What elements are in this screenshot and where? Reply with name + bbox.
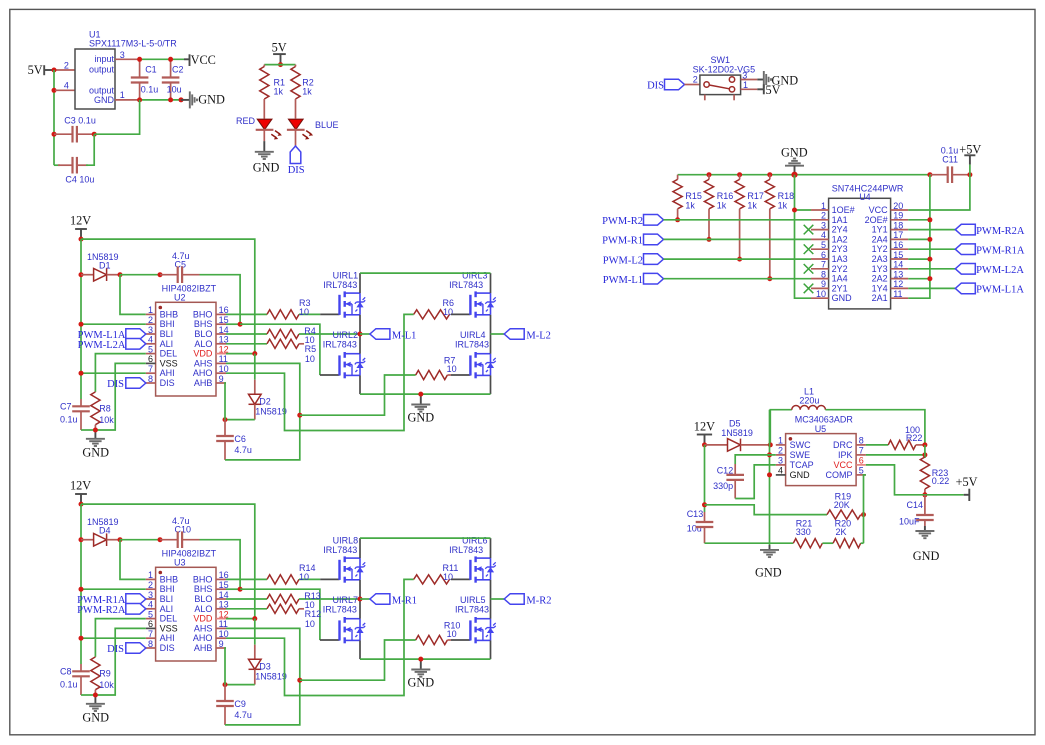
svg-text:IRL7843: IRL7843 (449, 280, 483, 290)
U2 pin 9 (AHB) (216, 382, 226, 384)
resistor R1 (263, 65, 265, 67)
svg-text:GND: GND (253, 160, 280, 174)
svg-text:5: 5 (821, 240, 826, 250)
svg-text:8: 8 (148, 639, 153, 649)
svg-text:18: 18 (893, 220, 903, 230)
svg-text:DIS: DIS (288, 165, 305, 176)
wire VSS down-left (95, 628, 145, 695)
svg-text:1: 1 (120, 90, 125, 100)
U3 pin 10 (AHO) (216, 637, 226, 639)
svg-text:D3: D3 (259, 661, 271, 671)
svg-text:output: output (89, 64, 115, 74)
wire AHB down (225, 383, 226, 420)
svg-text:IRL7843: IRL7843 (323, 605, 357, 615)
wire PWM-L2 to U4 (664, 258, 812, 260)
resistor R6 10 (414, 310, 450, 319)
svg-text:9: 9 (821, 279, 826, 289)
svg-text:2OE#: 2OE# (865, 215, 888, 225)
U3 pin 14 (BLO) (216, 598, 226, 600)
svg-text:1N5819: 1N5819 (721, 428, 753, 438)
wire source rail (gnd) (360, 393, 491, 395)
svg-text:13: 13 (893, 269, 903, 279)
svg-text:UIRL4: UIRL4 (460, 330, 486, 340)
U4 pin 14 (1Y3) (891, 268, 909, 270)
svg-text:2Y4: 2Y4 (832, 225, 848, 235)
wire drain rail (360, 537, 491, 539)
svg-text:1k: 1k (778, 201, 788, 211)
U5 pin 2 (SWE) (776, 454, 786, 456)
U5 pin 1 (SWC) (776, 444, 786, 446)
resistor R13 10 (267, 594, 299, 603)
resistor R16 (707, 172, 712, 177)
junction M-R1 node (358, 597, 363, 602)
svg-text:IRL7843: IRL7843 (455, 605, 489, 615)
svg-text:10: 10 (299, 572, 309, 582)
wire LED top rail (264, 64, 295, 66)
svg-text:U4: U4 (859, 192, 871, 202)
wire BLO through R4 to M node (226, 333, 267, 335)
svg-text:DIS: DIS (107, 644, 124, 655)
wire C12 to TCAP (735, 465, 776, 499)
wire U4 to PWM-L1A (908, 287, 955, 289)
svg-text:DRC: DRC (833, 440, 853, 450)
svg-text:5V: 5V (272, 41, 287, 55)
resistor R14 10 (267, 575, 299, 584)
svg-text:1: 1 (148, 305, 153, 315)
no-connect X pin 5 (804, 244, 814, 254)
U5 pin 6 (VCC) (856, 464, 866, 466)
switch SW1 bottom stubs (704, 95, 706, 101)
U4 pin 1 (1OE#) (811, 209, 829, 211)
svg-text:6: 6 (859, 456, 864, 466)
svg-text:11: 11 (893, 289, 902, 299)
resistor R15 (677, 175, 679, 180)
svg-text:3: 3 (148, 590, 153, 600)
wire VCC rail (140, 58, 184, 60)
wire L1 top left (770, 410, 792, 445)
wire C to gnd row (81, 694, 95, 696)
wire J1 to low-gate resistor (300, 640, 416, 680)
U3 pin 15 (BHS) (216, 588, 226, 590)
svg-text:COMP: COMP (826, 470, 853, 480)
svg-text:SWE: SWE (790, 450, 811, 460)
wire GND bus (top) (678, 174, 930, 176)
svg-text:5: 5 (148, 344, 153, 354)
svg-text:0.1u: 0.1u (60, 679, 78, 689)
svg-text:PWM-L2A: PWM-L2A (976, 265, 1024, 276)
svg-text:0.1u: 0.1u (141, 85, 159, 95)
power flag VCC (184, 58, 190, 60)
capacitor C9 4.7u (224, 685, 226, 701)
svg-text:ALI: ALI (160, 604, 174, 614)
svg-text:GND: GND (781, 146, 808, 160)
svg-text:R8: R8 (99, 403, 111, 413)
svg-text:GND: GND (913, 549, 940, 563)
svg-text:BHS: BHS (194, 584, 213, 594)
svg-text:8: 8 (148, 374, 153, 384)
ground symbol (right of C2) (181, 99, 190, 101)
svg-text:2: 2 (64, 60, 69, 70)
wire IPK to node (866, 454, 925, 456)
svg-text:DIS: DIS (647, 81, 664, 92)
wire D2 to C6 node (225, 419, 255, 421)
junction M-L1 node (358, 332, 363, 337)
wire R1 to LED1 (263, 99, 265, 119)
wire PWM-R2 to U4 (664, 219, 812, 221)
ground symbol (U3 bridge) (420, 659, 422, 669)
wire R2 to LED2 (295, 99, 297, 119)
svg-text:AHS: AHS (194, 358, 213, 368)
resistor R11 10 (414, 575, 450, 584)
svg-text:7: 7 (148, 629, 153, 639)
diode D2 1N5819 (254, 354, 256, 380)
svg-text:5V: 5V (28, 63, 43, 77)
svg-text:2A2: 2A2 (872, 274, 888, 284)
U4 pin 19 (2OE#) (891, 219, 909, 221)
wire BLO through R4 to M node (226, 598, 267, 600)
svg-text:VCC: VCC (869, 205, 889, 215)
wire D to BHB pin1 (120, 540, 146, 580)
svg-text:ALO: ALO (194, 339, 212, 349)
svg-text:C3 0.1u: C3 0.1u (64, 115, 96, 125)
U2 pin 12 (VDD) (216, 353, 226, 355)
capacitor C4 (54, 164, 60, 166)
svg-text:16: 16 (893, 240, 903, 250)
svg-text:4: 4 (148, 600, 153, 610)
U3 pin 16 (BHO) (216, 578, 226, 580)
svg-text:4: 4 (821, 230, 826, 240)
U4 pin 2 (1A1) (811, 219, 829, 221)
svg-text:C7: C7 (60, 402, 72, 412)
no-connect X pin 3 (804, 225, 814, 235)
U4 pin 12 (1Y4) (891, 287, 909, 289)
wire 12V top to VDD branch (81, 504, 255, 618)
U3 pin 3 (BLI) (146, 598, 156, 600)
wire J1 to low-gate resistor (300, 375, 416, 415)
svg-text:4.7u: 4.7u (234, 710, 252, 720)
svg-text:+5V: +5V (956, 475, 978, 489)
capacitor C6 4.7u (224, 420, 226, 436)
svg-text:BLUE: BLUE (315, 120, 339, 130)
U4 pin 9 (2Y1) (811, 287, 829, 289)
svg-text:1Y2: 1Y2 (872, 244, 888, 254)
svg-text:10: 10 (443, 307, 453, 317)
svg-text:1k: 1k (302, 87, 312, 97)
svg-text:IRL7843: IRL7843 (323, 545, 357, 555)
U2 pin 1 (BHB) (146, 313, 156, 315)
capacitor C1 (139, 59, 141, 77)
U2 pin 6 (VSS) (146, 362, 156, 364)
svg-text:C4 10u: C4 10u (65, 174, 94, 184)
svg-text:10: 10 (299, 307, 309, 317)
svg-text:1N5819: 1N5819 (255, 406, 287, 416)
svg-text:20K: 20K (834, 500, 850, 510)
junction C3 left (52, 132, 57, 137)
svg-text:PWM-R2: PWM-R2 (602, 216, 643, 227)
svg-text:VCC: VCC (191, 53, 216, 67)
resistor R3 10 (267, 310, 299, 319)
ground symbol (LED1) (263, 141, 265, 152)
svg-text:12V: 12V (694, 420, 715, 434)
svg-text:GND: GND (408, 411, 435, 425)
svg-text:1k: 1k (747, 201, 757, 211)
svg-text:19: 19 (893, 211, 903, 221)
svg-text:C13: C13 (687, 509, 704, 519)
svg-text:1Y4: 1Y4 (872, 283, 888, 293)
svg-text:6: 6 (148, 619, 153, 629)
svg-text:15: 15 (893, 250, 903, 260)
svg-text:7: 7 (859, 446, 864, 456)
svg-text:2: 2 (693, 74, 698, 84)
wire VSS down-left (95, 363, 145, 430)
svg-text:ALO: ALO (194, 604, 212, 614)
svg-text:BLI: BLI (160, 594, 174, 604)
svg-text:1A1: 1A1 (832, 215, 848, 225)
wire DIS to SW1 (685, 84, 700, 86)
svg-text:6: 6 (148, 354, 153, 364)
svg-text:1: 1 (821, 201, 826, 211)
switch SW1 box (700, 75, 741, 95)
wire ALO to R5 (226, 343, 267, 345)
junction pin1 gnd (792, 208, 797, 213)
wire source rail (gnd) (360, 658, 491, 660)
pin 4 wire (55, 89, 75, 91)
svg-text:VDD: VDD (193, 349, 213, 359)
wire C3 to pin1 node (94, 100, 139, 134)
svg-text:R9: R9 (99, 668, 111, 678)
svg-text:AHI: AHI (160, 368, 175, 378)
svg-text:IRL7843: IRL7843 (323, 340, 357, 350)
svg-text:U2: U2 (174, 293, 186, 303)
diode D3 1N5819 (254, 619, 256, 645)
U3 pin 12 (VDD) (216, 618, 226, 620)
svg-text:1A2: 1A2 (832, 234, 848, 244)
svg-text:1Y1: 1Y1 (872, 225, 888, 235)
power flag 5V (SW1) (741, 88, 758, 90)
U2 pin 14 (BLO) (216, 333, 226, 335)
junction C3 right (92, 132, 97, 137)
U5 pin 3 (TCAP) (776, 464, 786, 466)
junction pin4 node (52, 88, 57, 93)
svg-text:10: 10 (816, 289, 826, 299)
svg-text:10u: 10u (687, 523, 702, 533)
svg-text:PWM-L1A: PWM-L1A (976, 285, 1024, 296)
svg-text:+5V: +5V (959, 142, 981, 156)
U3 pin 6 (VSS) (146, 627, 156, 629)
svg-text:3: 3 (148, 325, 153, 335)
U4 pin 3 (2Y4) (811, 229, 829, 231)
wire C to gnd row (81, 429, 95, 431)
svg-text:BLI: BLI (160, 329, 174, 339)
svg-text:DIS: DIS (160, 378, 175, 388)
svg-text:GND: GND (94, 95, 115, 105)
svg-text:IRL7843: IRL7843 (455, 340, 489, 350)
svg-text:2A1: 2A1 (872, 293, 888, 303)
U3 pin 9 (AHB) (216, 647, 226, 649)
U3 pin 4 (ALI) (146, 608, 156, 610)
wire C13 node to R19 (705, 505, 828, 515)
svg-text:UIRL5: UIRL5 (460, 595, 486, 605)
net flag M-R1 (360, 598, 370, 600)
svg-text:VDD: VDD (193, 614, 213, 624)
svg-text:17: 17 (893, 230, 903, 240)
pin 3 wire (115, 58, 140, 60)
wire U4 to PWM-L2A (908, 268, 955, 270)
svg-text:UIRL2: UIRL2 (333, 330, 359, 340)
wire 5V to pin2 (55, 69, 75, 71)
wire 2A pin to rail (908, 278, 930, 280)
svg-text:SPX1117M3-L-5-0/TR: SPX1117M3-L-5-0/TR (89, 38, 177, 48)
svg-text:2: 2 (821, 211, 826, 221)
svg-text:9: 9 (219, 374, 224, 384)
wire DEL down to R (95, 354, 145, 392)
wire DEL down to R (95, 619, 145, 657)
U2 pin 3 (BLI) (146, 333, 156, 335)
svg-text:AHB: AHB (194, 643, 213, 653)
U4 pin 13 (2A2) (891, 278, 909, 280)
wire L1 top right (825, 410, 925, 445)
wire drain rail (360, 272, 491, 274)
ground symbol (U2 bridge) (420, 394, 422, 404)
wire U4 to PWM-R1A (908, 248, 955, 250)
wire VCC to +5V node (866, 465, 925, 495)
svg-text:M-L1: M-L1 (392, 330, 417, 341)
U2 pin 16 (BHO) (216, 313, 226, 315)
wire LED1 to GND (263, 130, 265, 141)
ground symbol (C14) (924, 526, 926, 531)
svg-text:GND: GND (755, 566, 782, 580)
svg-text:AHO: AHO (193, 633, 213, 643)
U5 pin 4 (GND) (776, 474, 786, 476)
svg-text:7: 7 (148, 364, 153, 374)
svg-text:7: 7 (821, 260, 826, 270)
wire D to BHB pin1 (120, 275, 146, 315)
svg-text:2Y2: 2Y2 (832, 264, 848, 274)
U5 pin 7 (IPK) (856, 454, 866, 456)
svg-text:IRL7843: IRL7843 (449, 545, 483, 555)
svg-text:DIS: DIS (160, 643, 175, 653)
wire AHS down to J1 (226, 363, 300, 415)
svg-text:ALI: ALI (160, 339, 174, 349)
svg-text:M-L2: M-L2 (526, 330, 551, 341)
no-connect X pin 7 (804, 264, 814, 274)
svg-text:10k: 10k (99, 415, 114, 425)
wire BHS to low-gate (left fet) (226, 588, 240, 590)
svg-text:C8: C8 (60, 667, 72, 677)
resistor R12 10 (267, 604, 299, 613)
svg-text:8: 8 (821, 269, 826, 279)
svg-text:M-R1: M-R1 (392, 595, 417, 606)
svg-text:BHS: BHS (194, 319, 213, 329)
svg-text:BLO: BLO (194, 329, 212, 339)
regulator U1 box (75, 49, 115, 109)
LED D (red) (257, 119, 272, 129)
svg-text:R12: R12 (305, 609, 322, 619)
svg-text:VCC: VCC (833, 460, 853, 470)
svg-text:GND: GND (198, 93, 225, 107)
junction LED supply (278, 62, 283, 67)
svg-text:20: 20 (893, 201, 903, 211)
svg-text:4: 4 (64, 81, 69, 91)
net flag M-L1 (360, 333, 370, 335)
svg-text:GND: GND (82, 711, 109, 725)
U2 pin 10 (AHO) (216, 372, 226, 374)
svg-text:BHB: BHB (160, 309, 179, 319)
net flag M-L2 (491, 333, 505, 335)
svg-text:10: 10 (305, 619, 315, 629)
wire C13 bottom to R21 (705, 542, 794, 544)
svg-text:C6: C6 (234, 434, 246, 444)
svg-text:AHS: AHS (194, 623, 213, 633)
wire U4 to PWM-R2A (908, 229, 955, 231)
wire D2 to C6 node (225, 684, 255, 686)
U4 pin 17 (2A4) (891, 238, 909, 240)
svg-text:IPK: IPK (838, 450, 853, 460)
U4 pin 11 (2A1) (891, 297, 909, 299)
wire AHO to high-gate resistor (226, 314, 414, 430)
svg-text:2A4: 2A4 (872, 234, 888, 244)
junction VDD node (226, 353, 255, 355)
wire 12V rail down to C13 (704, 445, 706, 512)
svg-text:5: 5 (148, 609, 153, 619)
svg-text:VSS: VSS (160, 623, 178, 633)
svg-text:BHB: BHB (160, 574, 179, 584)
svg-text:10: 10 (305, 354, 315, 364)
U4 pin 16 (1Y2) (891, 248, 909, 250)
wire AHB down (225, 648, 226, 685)
svg-text:BHO: BHO (193, 574, 213, 584)
wire 2A pin to rail (908, 219, 930, 221)
svg-text:2Y1: 2Y1 (832, 283, 848, 293)
svg-text:2Y3: 2Y3 (832, 244, 848, 254)
resistor R4 10 (267, 329, 299, 338)
svg-text:12V: 12V (70, 213, 91, 227)
svg-text:R5: R5 (305, 344, 317, 354)
wire pin3 to GND (741, 79, 758, 81)
wire left rail 5V down (53, 70, 55, 165)
svg-text:330: 330 (796, 527, 811, 537)
U4 pin 10 (GND) (811, 297, 829, 299)
svg-text:2: 2 (778, 446, 783, 456)
wire C6 bottom to J1 (225, 680, 300, 725)
switch SW1 contacts (704, 82, 709, 87)
wire bootstrap to BHS (200, 540, 241, 590)
svg-text:1k: 1k (717, 201, 727, 211)
svg-text:1k: 1k (274, 87, 284, 97)
svg-text:1Y3: 1Y3 (872, 264, 888, 274)
capacitor C2 (170, 59, 172, 77)
svg-text:4: 4 (778, 466, 783, 476)
wire C6 bottom to J1 (225, 415, 300, 460)
U3 pin 11 (AHS) (216, 627, 226, 629)
svg-text:4.7u: 4.7u (234, 445, 252, 455)
wire AHS down to J1 (226, 628, 300, 680)
net flag M-R2 (491, 598, 505, 600)
U2 pin 11 (AHS) (216, 362, 226, 364)
wire GND rail (140, 99, 181, 101)
wire PWM-R1 to U4 (664, 238, 812, 240)
svg-text:6: 6 (821, 250, 826, 260)
U3 pin 5 (DEL) (146, 618, 156, 620)
svg-text:DIS: DIS (107, 379, 124, 390)
svg-text:GND: GND (790, 470, 811, 480)
wire AHI to rail (81, 372, 146, 374)
svg-text:PWM-R1A: PWM-R1A (976, 246, 1025, 257)
U3 pin 2 (BHI) (146, 588, 156, 590)
svg-text:1: 1 (778, 436, 783, 446)
svg-text:GND: GND (408, 676, 435, 690)
U2 pin 13 (ALO) (216, 343, 226, 345)
